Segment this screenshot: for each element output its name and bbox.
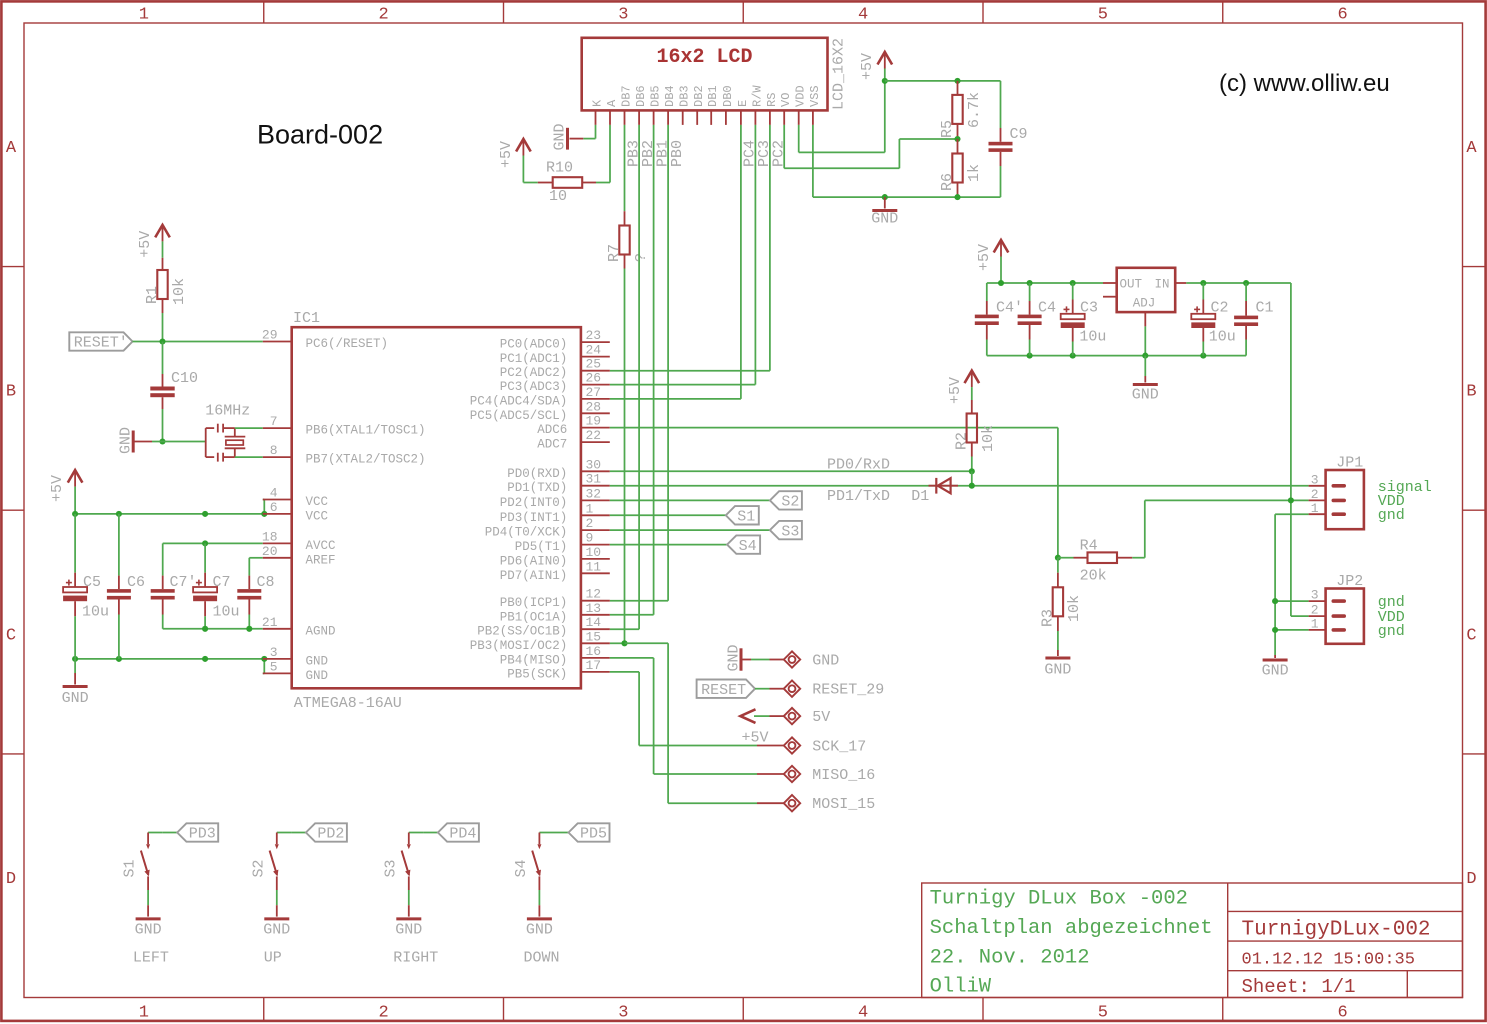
svg-text:SCK_17: SCK_17 — [812, 739, 866, 756]
junction JP2 dots — [1272, 598, 1278, 633]
svg-text:10u: 10u — [213, 604, 240, 621]
svg-text:9: 9 — [586, 531, 594, 546]
svg-text:gnd: gnd — [1378, 623, 1405, 640]
capacitor C10 — [150, 342, 198, 442]
flag S1 on PD3 — [610, 506, 759, 525]
svg-text:LEFT: LEFT — [133, 950, 169, 967]
IC1 pin 27 PC4(ADC4/SDA) — [470, 385, 610, 409]
wire regulator bottom rail — [987, 283, 1246, 356]
svg-text:PB2(SS/OC1B): PB2(SS/OC1B) — [477, 625, 567, 639]
svg-text:?: ? — [633, 253, 650, 262]
wire MISO from pin16 — [610, 658, 757, 774]
capacitor C7' — [151, 574, 197, 629]
resistor R7 — [606, 211, 650, 268]
ground below JP2 — [1262, 655, 1289, 680]
svg-text:15: 15 — [586, 629, 602, 644]
ground below VSS line — [871, 197, 898, 227]
svg-text:C2: C2 — [1211, 300, 1229, 317]
ground left of crystal — [118, 427, 163, 454]
capacitor C3 — [1061, 283, 1107, 356]
wire R4 to JP1 VDD — [1132, 500, 1308, 557]
wire PD0 to PD1 link — [971, 471, 973, 485]
IC U1 ATMEGA8 box — [292, 310, 581, 712]
connector JP1 — [1309, 455, 1364, 530]
wire ADC6 net — [610, 428, 1058, 558]
svg-text:VCC: VCC — [306, 495, 329, 509]
LCD pin RS — [765, 93, 779, 125]
svg-text:20: 20 — [262, 544, 278, 559]
svg-text:TurnigyDLux-002: TurnigyDLux-002 — [1242, 919, 1431, 942]
svg-text:GND: GND — [62, 690, 89, 707]
IC1 pin 11 PD7(AIN1) — [500, 559, 610, 583]
net PB3 wire (DB7 column) — [625, 125, 643, 211]
svg-text:20k: 20k — [1080, 568, 1107, 585]
svg-text:3: 3 — [270, 645, 278, 660]
svg-text:C: C — [1466, 627, 1476, 646]
svg-text:4: 4 — [270, 486, 278, 501]
svg-text:MOSI_15: MOSI_15 — [812, 796, 875, 813]
ground below regulator — [1132, 356, 1159, 404]
wire VO to divider — [784, 125, 957, 168]
svg-text:+5V: +5V — [49, 475, 66, 502]
capacitor C6 — [107, 514, 145, 659]
svg-text:B: B — [1466, 383, 1476, 402]
svg-text:VCC: VCC — [306, 509, 329, 523]
LCD pin VSS — [808, 85, 822, 125]
svg-text:JP2: JP2 — [1336, 573, 1363, 590]
svg-text:2: 2 — [1311, 487, 1319, 502]
junction AGND dots — [202, 626, 252, 632]
svg-text:C: C — [6, 627, 16, 646]
svg-text:PD0(RXD): PD0(RXD) — [507, 467, 567, 481]
svg-text:DB0: DB0 — [721, 85, 735, 107]
svg-text:3: 3 — [1311, 588, 1319, 603]
ground near K — [552, 123, 584, 150]
svg-text:22. Nov. 2012: 22. Nov. 2012 — [930, 947, 1090, 970]
svg-text:A: A — [1466, 139, 1477, 158]
power +5V above R1 — [137, 225, 170, 258]
svg-text:PD1(TXD): PD1(TXD) — [507, 481, 567, 495]
svg-text:C10: C10 — [171, 370, 198, 387]
svg-text:PD2: PD2 — [317, 826, 344, 843]
svg-text:(c) www.olliw.eu: (c) www.olliw.eu — [1219, 70, 1390, 97]
svg-text:S2: S2 — [781, 494, 799, 511]
capacitor C4 — [1018, 283, 1056, 356]
wire +5V rail to C9 — [885, 81, 1001, 128]
svg-text:S2: S2 — [250, 859, 267, 877]
svg-text:E: E — [736, 100, 750, 107]
wire PD0/RxD net — [610, 457, 972, 474]
flag PD3 — [163, 823, 219, 842]
svg-text:GND: GND — [812, 653, 839, 670]
junction ADC6/R4/R3 — [1055, 555, 1061, 561]
svg-text:GND: GND — [1044, 662, 1071, 679]
IC1 pin 8 PB7(XTAL2/TOSC2) — [263, 443, 426, 467]
svg-text:RIGHT: RIGHT — [393, 950, 438, 967]
IC1 pin 28 PC5(ADC5/SCL) — [470, 399, 610, 423]
wire crystal pin7 — [235, 427, 263, 429]
net PC3 wire (R/W column) — [610, 125, 773, 385]
svg-text:12: 12 — [586, 587, 602, 602]
svg-text:PD0/RxD: PD0/RxD — [827, 457, 890, 474]
svg-text:GND: GND — [135, 922, 162, 939]
wire JP1 gnd down — [1275, 514, 1309, 655]
svg-text:C7: C7 — [213, 574, 231, 591]
wire MOSI from junction — [625, 643, 758, 803]
svg-text:Turnigy DLux Box -002: Turnigy DLux Box -002 — [930, 888, 1188, 911]
wire crystal pin8 — [235, 456, 263, 458]
svg-text:Schaltplan abgezeichnet: Schaltplan abgezeichnet — [930, 917, 1213, 940]
IC1 pin 31 PD1(TXD) — [507, 472, 610, 496]
IC1 pin 30 PD0(RXD) — [507, 457, 610, 481]
flag PD2 — [291, 823, 347, 842]
svg-text:C9: C9 — [1010, 126, 1028, 143]
junction RESET/R1 — [159, 338, 165, 344]
svg-text:GND: GND — [526, 922, 553, 939]
svg-text:B: B — [6, 383, 16, 402]
svg-text:PC4(ADC4/SDA): PC4(ADC4/SDA) — [470, 394, 568, 408]
title block frame — [922, 883, 1463, 998]
junction VDD vertical — [1288, 497, 1294, 503]
net PB1 wire (DB5 column) — [610, 125, 672, 615]
svg-text:PD3: PD3 — [189, 826, 216, 843]
wire RESET to IC pin29 — [133, 341, 263, 343]
svg-text:26: 26 — [586, 371, 602, 386]
svg-text:A: A — [605, 99, 619, 107]
svg-text:ATMEGA8-16AU: ATMEGA8-16AU — [294, 695, 402, 712]
svg-text:AVCC: AVCC — [306, 539, 336, 553]
svg-text:DB3: DB3 — [678, 85, 692, 107]
svg-text:C8: C8 — [257, 574, 275, 591]
svg-text:22: 22 — [586, 428, 602, 443]
IC1 pin 7 PB6(XTAL1/TOSC1) — [263, 414, 426, 438]
svg-text:GND: GND — [726, 644, 743, 671]
svg-text:C5: C5 — [83, 574, 101, 591]
svg-text:R5: R5 — [939, 120, 956, 138]
svg-text:10u: 10u — [82, 604, 109, 621]
IC1 pin 1 PD3(INT1) — [500, 501, 610, 525]
IC1 pin 2 PD4(T0/XCK) — [485, 516, 610, 540]
svg-text:R10: R10 — [546, 160, 573, 177]
ground below R3 — [1044, 631, 1071, 679]
svg-text:VO: VO — [779, 93, 793, 107]
LCD module LCD_16X2 box — [582, 38, 828, 111]
IC1 pin 19 ADC6 — [537, 414, 610, 438]
capacitor C1 — [1234, 300, 1273, 340]
svg-text:GND: GND — [871, 211, 898, 228]
svg-text:GND: GND — [306, 669, 329, 683]
svg-text:31: 31 — [586, 472, 602, 487]
svg-text:GND: GND — [1262, 663, 1289, 680]
svg-text:LCD_16X2: LCD_16X2 — [831, 38, 848, 110]
svg-text:13: 13 — [586, 601, 602, 616]
LCD pin VDD — [794, 85, 808, 125]
svg-text:JP1: JP1 — [1336, 455, 1363, 472]
svg-text:1: 1 — [1311, 616, 1319, 631]
power +5V above regulator — [976, 240, 1008, 283]
IC1 pin 5 GND — [263, 659, 328, 683]
svg-text:PD5(T1): PD5(T1) — [515, 540, 568, 554]
svg-text:PD4(T0/XCK): PD4(T0/XCK) — [485, 526, 568, 540]
pad 5V — [754, 708, 830, 726]
wire PD1/TxD net to JP1 — [610, 486, 1309, 505]
junction bottom rail dots — [1027, 353, 1207, 359]
svg-text:+5V: +5V — [498, 141, 515, 168]
LCD pin VO — [779, 93, 793, 125]
svg-text:10u: 10u — [1209, 329, 1236, 346]
flag PD5 — [554, 823, 610, 842]
capacitor C5 — [63, 514, 109, 659]
svg-text:OUT: OUT — [1120, 278, 1143, 292]
resistor R3 — [1040, 558, 1084, 631]
svg-text:A: A — [6, 139, 17, 158]
svg-text:+5V: +5V — [947, 377, 964, 404]
wire +5V rail — [75, 500, 264, 514]
svg-text:OlliW: OlliW — [930, 976, 992, 999]
svg-text:4: 4 — [858, 1004, 868, 1023]
svg-text:PC2(ADC2): PC2(ADC2) — [500, 366, 568, 380]
svg-text:RESET_29: RESET_29 — [812, 682, 884, 699]
junction PB3/MOSI — [621, 640, 627, 646]
resistor R5 — [939, 81, 983, 139]
svg-text:23: 23 — [586, 328, 602, 343]
net PB2 wire (DB6 column) — [610, 125, 657, 629]
svg-text:5: 5 — [1098, 1004, 1108, 1023]
power +5V left rail — [49, 470, 82, 514]
IC1 pin 32 PD2(INT0) — [500, 486, 610, 510]
svg-text:7: 7 — [270, 414, 278, 429]
svg-text:2: 2 — [1311, 603, 1319, 618]
svg-text:1: 1 — [139, 6, 149, 25]
svg-text:1: 1 — [586, 501, 594, 516]
svg-text:R2: R2 — [954, 432, 971, 450]
wire K to GND — [583, 125, 595, 139]
svg-text:GND: GND — [552, 123, 569, 150]
svg-text:R7: R7 — [606, 244, 623, 262]
svg-text:S1: S1 — [737, 509, 755, 526]
resistor R1 — [144, 258, 188, 341]
svg-text:ADC6: ADC6 — [537, 423, 567, 437]
svg-text:+5V: +5V — [137, 231, 154, 258]
svg-text:PD3(INT1): PD3(INT1) — [500, 511, 568, 525]
flag S2 on PD2 — [610, 491, 802, 510]
svg-text:UP: UP — [264, 950, 282, 967]
svg-text:K: K — [591, 99, 605, 107]
IC1 pin 12 PB0(ICP1) — [500, 587, 610, 611]
svg-text:DOWN: DOWN — [524, 950, 560, 967]
LCD pin DB0 — [721, 85, 735, 125]
svg-text:Board-002: Board-002 — [257, 120, 383, 150]
svg-text:5: 5 — [270, 659, 278, 674]
svg-text:32: 32 — [586, 486, 602, 501]
svg-text:R3: R3 — [1040, 609, 1057, 627]
IC1 pin 21 AGND — [262, 615, 336, 639]
svg-text:DB5: DB5 — [649, 85, 663, 107]
wire VDD to +5V — [799, 81, 885, 152]
svg-text:D1: D1 — [911, 488, 929, 505]
net PC2 wire (RS column) — [610, 125, 788, 371]
IC1 pin 13 PB1(OC1A) — [500, 601, 610, 625]
svg-text:C4': C4' — [996, 300, 1023, 317]
switch S3 RIGHT — [382, 833, 438, 967]
flag RESET' — [69, 332, 132, 350]
svg-text:AGND: AGND — [306, 624, 336, 638]
svg-text:RS: RS — [765, 93, 779, 107]
svg-text:PD2(INT0): PD2(INT0) — [500, 496, 568, 510]
svg-text:+5V: +5V — [742, 730, 769, 747]
wire AVCC line — [163, 543, 263, 575]
svg-text:D: D — [1466, 870, 1476, 889]
svg-text:29: 29 — [262, 328, 278, 343]
svg-text:DB2: DB2 — [692, 85, 706, 107]
capacitor C4' — [975, 300, 1023, 340]
voltage regulator U2 — [1103, 268, 1175, 356]
svg-text:S4: S4 — [513, 859, 530, 877]
power +5V arrow left at 5V pad — [740, 709, 768, 746]
wire JP2 pin2 to VDD — [1291, 615, 1309, 617]
junction rail dots +5V — [72, 511, 267, 517]
pad MISO_16 — [757, 766, 875, 784]
svg-text:10: 10 — [586, 545, 602, 560]
svg-text:2: 2 — [586, 516, 594, 531]
junction +5V rail — [882, 78, 888, 84]
svg-text:PC1(ADC1): PC1(ADC1) — [500, 352, 568, 366]
IC1 pin 17 PB5(SCK) — [507, 658, 610, 682]
switch S4 DOWN — [513, 833, 560, 967]
LCD pin R/W — [750, 85, 764, 125]
flag S4 on PD5 — [610, 535, 760, 554]
svg-text:5: 5 — [1098, 6, 1108, 25]
pad SCK_17 — [757, 737, 866, 755]
ground at ISP GND pad — [726, 644, 770, 671]
IC1 pin 18 AVCC — [262, 529, 336, 553]
net PB0 wire (DB4 column) — [610, 125, 686, 601]
wire R7 to PB3 pin15 — [610, 269, 625, 644]
svg-text:25: 25 — [586, 357, 602, 372]
svg-text:PB1(OC1A): PB1(OC1A) — [500, 610, 568, 624]
pad GND — [770, 651, 840, 669]
svg-text:IC1: IC1 — [293, 310, 320, 327]
svg-text:6: 6 — [1337, 6, 1347, 25]
junction rail dots GND — [72, 656, 267, 662]
svg-text:1k: 1k — [966, 164, 983, 182]
svg-text:IN: IN — [1154, 278, 1169, 292]
svg-text:PC6(/RESET): PC6(/RESET) — [306, 337, 389, 351]
svg-text:21: 21 — [262, 615, 278, 630]
svg-text:5V: 5V — [812, 709, 830, 726]
LCD pin E — [736, 100, 750, 125]
svg-text:R1: R1 — [144, 286, 161, 304]
LCD pin DB2 — [692, 85, 706, 125]
svg-text:R/W: R/W — [750, 85, 764, 107]
svg-text:19: 19 — [586, 414, 602, 429]
IC1 pin 29 PC6(/RESET) — [262, 328, 388, 352]
svg-text:24: 24 — [586, 343, 602, 358]
svg-text:3: 3 — [1311, 472, 1319, 487]
IC1 pin 15 PB3(MOSI/OC2) — [470, 629, 610, 653]
svg-text:GND: GND — [395, 922, 422, 939]
svg-text:17: 17 — [586, 658, 602, 673]
junction R5 top — [954, 78, 960, 84]
svg-text:VDD: VDD — [794, 85, 808, 107]
svg-text:MISO_16: MISO_16 — [812, 767, 875, 784]
wire GND rail — [75, 659, 264, 674]
LCD pin DB6 — [634, 85, 648, 125]
svg-text:D: D — [6, 870, 16, 889]
svg-text:2: 2 — [378, 6, 388, 25]
connector JP2 — [1309, 573, 1364, 644]
svg-text:gnd: gnd — [1378, 507, 1405, 524]
power +5V above R2 — [947, 371, 979, 404]
svg-text:C3: C3 — [1080, 300, 1098, 317]
wire JP2 pin1 — [1275, 629, 1309, 631]
IC1 pin 24 PC1(ADC1) — [500, 343, 610, 367]
wire SCK from pin17 — [610, 672, 757, 746]
svg-text:C1: C1 — [1256, 300, 1274, 317]
svg-text:PD4: PD4 — [449, 826, 476, 843]
svg-text:GND: GND — [306, 654, 329, 668]
svg-text:RESET: RESET — [701, 682, 746, 699]
resistor R6 — [939, 139, 983, 197]
svg-text:PB3(MOSI/OC2): PB3(MOSI/OC2) — [470, 639, 568, 653]
svg-text:PD1/TxD: PD1/TxD — [827, 488, 890, 505]
svg-text:8: 8 — [270, 443, 278, 458]
IC1 pin 10 PD6(AIN0) — [500, 545, 610, 569]
svg-text:DB4: DB4 — [663, 85, 677, 107]
svg-text:PB0: PB0 — [669, 140, 686, 167]
svg-text:AREF: AREF — [306, 553, 336, 567]
junction C10/GND — [159, 438, 165, 444]
switch S2 UP — [250, 833, 291, 967]
svg-text:6: 6 — [270, 500, 278, 515]
svg-text:1: 1 — [1311, 501, 1319, 516]
svg-text:ADC7: ADC7 — [537, 438, 567, 452]
svg-text:10k: 10k — [171, 278, 188, 305]
svg-text:PD5: PD5 — [580, 826, 607, 843]
junction R2/PD0 — [969, 468, 975, 474]
svg-text:27: 27 — [586, 385, 602, 400]
svg-text:3: 3 — [618, 6, 628, 25]
svg-text:+5V: +5V — [976, 244, 993, 271]
svg-text:DB7: DB7 — [620, 85, 634, 107]
crystal Q1 16MHz with caps — [163, 403, 251, 462]
IC1 pin 4 VCC — [263, 486, 328, 510]
capacitor C9 — [989, 126, 1028, 197]
svg-text:6.7k: 6.7k — [966, 92, 983, 128]
diode D1 — [911, 478, 958, 505]
svg-text:PD6(AIN0): PD6(AIN0) — [500, 554, 568, 568]
svg-text:PC5(ADC5/SCL): PC5(ADC5/SCL) — [470, 409, 568, 423]
svg-text:R6: R6 — [939, 173, 956, 191]
net PC4 wire (E column) — [610, 125, 759, 399]
svg-text:VSS: VSS — [808, 85, 822, 107]
capacitor C8 — [237, 574, 274, 629]
wire VSS ground line — [813, 125, 1001, 197]
resistor R2 — [954, 400, 998, 471]
svg-text:PB5(SCK): PB5(SCK) — [507, 667, 567, 681]
svg-text:10: 10 — [549, 188, 567, 205]
svg-text:PB0(ICP1): PB0(ICP1) — [500, 596, 568, 610]
svg-text:16: 16 — [586, 644, 602, 659]
frame row ticks — [2, 267, 1485, 754]
svg-text:RESET': RESET' — [74, 335, 128, 352]
svg-text:ADJ: ADJ — [1133, 297, 1156, 311]
IC1 pin 26 PC3(ADC3) — [500, 371, 610, 395]
svg-text:PB6(XTAL1/TOSC1): PB6(XTAL1/TOSC1) — [306, 424, 426, 438]
switch S1 LEFT — [122, 833, 169, 967]
IC1 pin 20 AREF — [262, 544, 336, 568]
svg-text:Sheet: 1/1: Sheet: 1/1 — [1242, 976, 1356, 998]
